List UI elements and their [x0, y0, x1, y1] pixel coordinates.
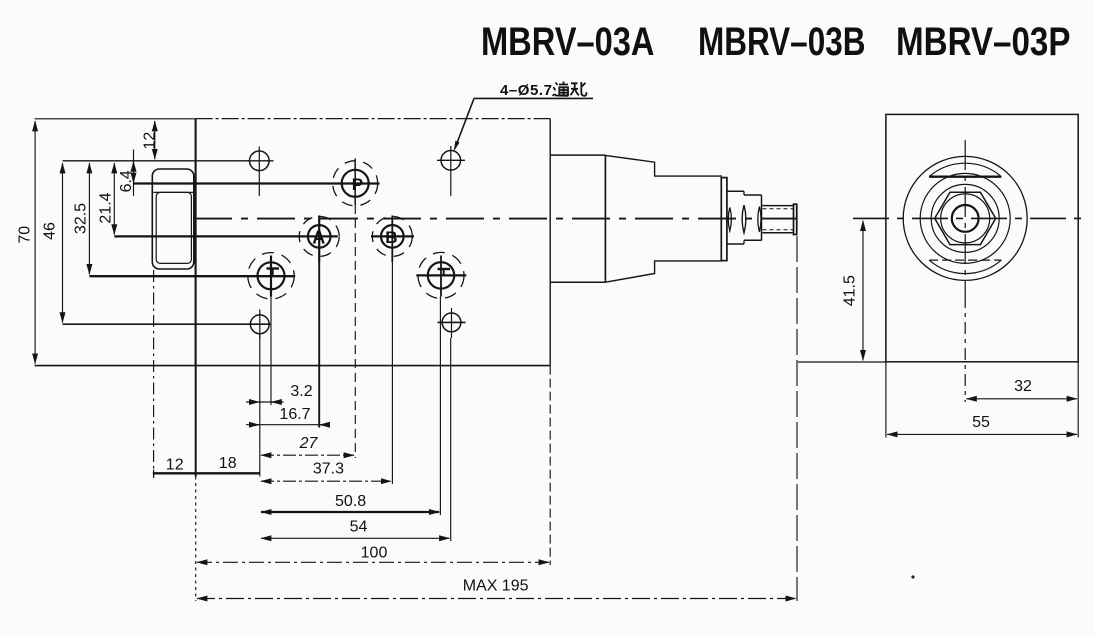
svg-text:MAX 195: MAX 195	[463, 578, 529, 595]
svg-text:12: 12	[141, 132, 158, 150]
svg-text:A: A	[312, 227, 325, 247]
svg-text:41.5: 41.5	[842, 275, 859, 306]
svg-text:54: 54	[350, 519, 368, 536]
svg-text:46: 46	[41, 222, 58, 240]
svg-text:4–Ø5.7: 4–Ø5.7	[500, 82, 552, 99]
svg-text:MBRV–03B: MBRV–03B	[698, 20, 866, 64]
svg-text:32.5: 32.5	[72, 203, 89, 234]
svg-text:MBRV–03P: MBRV–03P	[896, 20, 1071, 64]
svg-text:B: B	[385, 228, 397, 247]
svg-text:70: 70	[17, 226, 34, 244]
svg-text:MBRV–03A: MBRV–03A	[481, 20, 655, 64]
svg-text:16.7: 16.7	[279, 406, 310, 423]
svg-text:12: 12	[166, 457, 184, 474]
svg-text:50.8: 50.8	[335, 493, 366, 510]
svg-text:18: 18	[219, 455, 237, 472]
svg-text:55: 55	[972, 414, 990, 431]
svg-text:3.2: 3.2	[290, 383, 312, 400]
svg-text:32: 32	[1014, 378, 1032, 395]
svg-text:P: P	[352, 175, 363, 194]
svg-text:100: 100	[361, 545, 388, 562]
svg-text:37.3: 37.3	[313, 461, 344, 478]
svg-text:21.4: 21.4	[97, 192, 114, 223]
svg-text:27: 27	[299, 435, 319, 452]
svg-text:6.4: 6.4	[118, 170, 135, 192]
